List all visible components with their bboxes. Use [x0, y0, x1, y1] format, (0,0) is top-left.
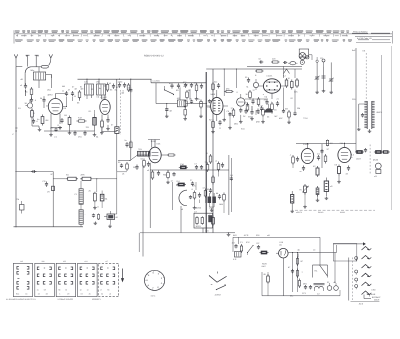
top bus right: [206, 66, 302, 69]
tube V2: [100, 95, 110, 115]
resistor R1: [25, 87, 33, 97]
svg-text:C21M.: C21M.: [267, 75, 273, 78]
svg-text:C.128M2: C.128M2: [153, 79, 160, 82]
chassis layout box B2: [35, 260, 55, 297]
svg-text:K4M3: K4M3: [340, 211, 345, 214]
parts m2: [125, 139, 133, 150]
filter cap C25: [288, 252, 294, 292]
svg-text:143: 143: [20, 260, 23, 263]
svg-text:4RR7.: 4RR7.: [48, 94, 54, 97]
wire x116 bottom: [115, 172, 117, 214]
osc resistor R2x: [198, 98, 203, 109]
capacitor C5: [58, 118, 64, 127]
resistor R3: [37, 115, 44, 126]
ground G2: [68, 131, 72, 134]
rectifier V10: [276, 248, 288, 258]
V8 below cap C20: [300, 166, 306, 174]
parts below V4: [147, 169, 160, 180]
choke coil CH2: [79, 204, 86, 224]
top bus left: [52, 75, 207, 89]
resistor R25 dark: [100, 191, 108, 205]
antenna A2: [26, 55, 30, 66]
chassis layout box B5: [98, 260, 118, 297]
svg-text:R4240: R4240: [318, 211, 323, 214]
osc section parts: [194, 82, 203, 101]
V6 bottom cluster: [248, 99, 280, 112]
label V1: [48, 94, 54, 97]
svg-text:520282C1: 520282C1: [92, 298, 101, 301]
capacitor C4: [40, 97, 46, 103]
svg-text:540K: 540K: [211, 93, 216, 96]
resistor R4: [64, 114, 71, 127]
dark component C6: [93, 114, 96, 128]
bleeder chain: [296, 252, 303, 292]
wire x283: [283, 66, 285, 110]
capacitor C16: [283, 61, 287, 64]
osc grounds: [165, 109, 203, 120]
tone switch label: [214, 294, 221, 297]
tube V5: [211, 93, 223, 115]
capacitor C15: [259, 58, 264, 64]
svg-text:M5x: M5x: [31, 69, 35, 72]
header table row-3 text: [15, 40, 352, 42]
svg-text:5.C8Mx3.343x222: 5.C8Mx3.343x222: [58, 298, 73, 301]
ground G1: [38, 128, 42, 131]
small circle part 2: [374, 163, 381, 178]
speaker field diag: [313, 237, 328, 277]
capacitor C14: [245, 76, 250, 83]
output transformer T4: [352, 98, 383, 129]
resistor R14: [291, 80, 294, 90]
V6 wires: [259, 86, 285, 99]
caps on y170: [195, 161, 209, 172]
wire gnd left: [32, 119, 39, 128]
ps bottom wire: [262, 272, 340, 296]
osc right marks: [208, 99, 212, 109]
ps top labels: [233, 234, 337, 298]
resistor R13: [285, 77, 290, 88]
osc caps mid: [190, 98, 194, 104]
label V8: [303, 143, 310, 146]
osc coil parts: [141, 158, 151, 169]
wires to bottom rule: [181, 170, 224, 233]
trimmer C18: [322, 59, 326, 89]
padder capacitor C1: [20, 84, 27, 89]
svg-text:.M: .M: [68, 89, 71, 92]
half-circle shield: [179, 190, 187, 211]
chassis layout box B4: [78, 260, 98, 297]
resistor R11: [246, 90, 252, 100]
svg-text:4KxM: 4KxM: [373, 159, 378, 162]
wire V4 up: [148, 140, 160, 148]
wire bus to V4: [155, 83, 157, 104]
wire x116 low: [116, 137, 118, 172]
svg-text:R.M: R.M: [78, 117, 82, 120]
svg-text:R58/V1-00-001-12: R58/V1-00-001-12: [144, 55, 164, 58]
V9 below parts: [335, 164, 351, 184]
label bus: [153, 79, 160, 82]
tube V1: [48, 94, 62, 115]
wire x130 down: [130, 79, 132, 160]
volume pot VR1: [299, 184, 308, 195]
chassis layout box B1: [13, 260, 32, 297]
right rule verticals: [382, 46, 392, 210]
svg-text:5x: 5x: [125, 139, 127, 142]
svg-text:17: 17: [100, 288, 102, 291]
svg-text:13: 13: [87, 288, 89, 291]
wire loop left: [16, 66, 41, 68]
svg-text:7M: 7M: [205, 161, 208, 164]
svg-text:K37C: K37C: [151, 294, 156, 297]
svg-text:3x2x3K4R: 3x2x3K4R: [367, 293, 376, 296]
ground G4: [227, 232, 236, 236]
svg-text:1M: 1M: [64, 114, 67, 117]
wire V8V9 top: [296, 143, 356, 144]
rect label: [279, 241, 284, 246]
label V5: [211, 93, 216, 96]
svg-text:02.: 02.: [89, 110, 92, 113]
trimmer C17: [315, 60, 320, 91]
ps vertical x335: [335, 245, 337, 283]
wire top loop V5: [216, 90, 218, 93]
audio cluster extra: [163, 170, 219, 214]
trimmer C19: [329, 62, 334, 90]
left col ticks: [12, 128, 18, 136]
IF transformer T3: [96, 79, 106, 99]
power transformer T5: [233, 252, 241, 262]
V8 below resistor R16: [313, 165, 319, 177]
antenna A1: [14, 54, 18, 66]
audio left marks: [51, 173, 103, 225]
switch S1a: [164, 86, 174, 95]
svg-text:28: 28: [38, 292, 40, 295]
small caps row: [73, 131, 86, 136]
shield line x206: [205, 72, 207, 233]
layout arrow: [121, 269, 124, 282]
bottom rule mid: [140, 232, 227, 234]
svg-text:R2.: R2.: [315, 270, 319, 273]
svg-text:771K: 771K: [303, 117, 308, 120]
osc wire y103: [156, 103, 207, 105]
svg-text:RM: RM: [297, 107, 300, 110]
svg-text:xx: xx: [300, 170, 302, 173]
tube V4 converter: [138, 140, 162, 163]
tube V6: [263, 79, 280, 93]
svg-text:35: 35: [65, 288, 67, 291]
parts m3: [133, 165, 139, 170]
svg-text:42M5: 42M5: [196, 207, 202, 210]
V6 under labels: [246, 86, 278, 119]
wire x224: [222, 68, 226, 121]
wire V2 bottom: [102, 115, 108, 121]
ground G3: [106, 127, 110, 130]
tube socket diagram circle: [145, 270, 165, 290]
tone switch S3: [209, 272, 227, 291]
ground G5: [108, 220, 112, 228]
svg-text:xx: xx: [351, 156, 353, 159]
parts y185 row: [173, 179, 197, 210]
svg-text:R3: R3: [107, 288, 109, 291]
svg-text:K4.R1MM07K44254C4K1817C7K1: K4.R1MM07K44254C4K1817C7K1: [6, 298, 36, 301]
diag wire dial: [118, 155, 138, 161]
capacitor C13: [176, 83, 180, 92]
svg-text:20: 20: [37, 288, 39, 291]
label power: [262, 263, 268, 268]
cluster parts det: [244, 97, 263, 112]
svg-text:x00174: x00174: [296, 211, 302, 214]
antenna coil T1: [31, 67, 52, 88]
x228 wires: [229, 155, 233, 215]
wire stub: [44, 103, 49, 122]
svg-text:R8R7: R8R7: [262, 265, 266, 268]
resistor R23: [81, 174, 93, 181]
dashed shield v: [120, 90, 122, 135]
V7 lower: [234, 115, 243, 126]
wire loop to coil: [25, 67, 31, 85]
det lower parts: [248, 110, 256, 119]
caption footnote line: [6, 298, 101, 301]
left rule: [14, 172, 84, 227]
parts x218: [215, 160, 224, 172]
speaker transformer T6: [314, 283, 325, 291]
svg-text:x8: x8: [109, 292, 111, 295]
node dot a: [25, 90, 26, 91]
capacitor C12: [169, 82, 174, 89]
svg-text:0M: 0M: [285, 108, 288, 111]
V5 bottom parts: [209, 119, 222, 134]
header table top text row: [14, 30, 349, 43]
resistor R9: [186, 89, 191, 100]
svg-text:xC4: xC4: [84, 260, 87, 263]
svg-text:14M: 14M: [219, 203, 223, 206]
T4 grounds: [357, 128, 371, 133]
cap C22: [43, 180, 49, 187]
svg-text:.3KRKR: .3KRKR: [214, 294, 221, 297]
jack wires: [309, 55, 312, 60]
svg-text:40C: 40C: [279, 117, 283, 120]
stack grounds: [290, 193, 306, 213]
resistor R5: [77, 117, 87, 123]
wire x143 down: [139, 166, 143, 257]
resistor R24: [94, 192, 97, 203]
antenna A4: [49, 54, 53, 65]
capacitor C8: [71, 91, 77, 98]
electrolytic C21: [324, 178, 333, 197]
resistor R15: [294, 78, 298, 94]
voice coil circles: [327, 283, 338, 290]
svg-text:CM: CM: [260, 105, 263, 108]
T4 left parts: [359, 104, 365, 127]
switch frame: [333, 243, 365, 262]
band switch chevrons: [362, 247, 372, 295]
switch wafer contacts: [355, 257, 358, 290]
oscillator coil L2: [25, 100, 33, 109]
resistor R17: [316, 186, 319, 197]
hatched grid block: [138, 148, 151, 156]
grounds row left: [49, 126, 103, 139]
resistor R18 dark: [291, 191, 294, 210]
tube V9: [338, 143, 351, 163]
resistor R22: [66, 174, 78, 181]
svg-text:Kx: Kx: [37, 118, 39, 121]
left block extra labels: [18, 78, 100, 130]
wire x356 tall: [355, 48, 357, 152]
resistor R8: [101, 119, 104, 129]
wire x236: [236, 68, 237, 88]
ps output wire: [262, 253, 337, 296]
capacitor C11: [129, 88, 132, 93]
ps res R21: [264, 254, 299, 296]
svg-text:2RR: 2RR: [81, 174, 86, 177]
wire R1 gnd: [26, 90, 32, 100]
resistor R7: [106, 82, 111, 92]
label top right: [352, 49, 366, 53]
audio cluster caps: [218, 193, 225, 207]
schematic title label: [144, 55, 164, 58]
left of V8 parts: [290, 154, 300, 169]
socket diagram label: [151, 294, 156, 297]
between tubes parts: [317, 140, 333, 169]
jack J1: [300, 60, 304, 64]
wire V2 net2: [102, 129, 117, 132]
osc resistor Rv: [184, 107, 187, 117]
dashed wire right: [365, 53, 367, 100]
loop antenna L1: [41, 65, 48, 68]
svg-text:M0C: M0C: [234, 123, 239, 126]
node dots bus: [86, 79, 131, 80]
resistor R6: [78, 88, 83, 100]
ps small parts left: [232, 241, 244, 253]
wire y171 left: [15, 170, 53, 173]
svg-text:8MCK: 8MCK: [377, 111, 383, 114]
dashed wire V9: [369, 145, 371, 175]
on-off switch S2: [246, 241, 254, 255]
capacitor C10: [106, 118, 109, 128]
svg-text:084: 084: [279, 243, 282, 246]
svg-text:500: 500: [42, 260, 45, 263]
parts m5: [117, 161, 129, 176]
svg-text:x17: x17: [105, 260, 108, 263]
wire x116 down: [116, 79, 118, 126]
svg-text:K3: K3: [81, 292, 83, 295]
resistor R2: [31, 109, 34, 120]
svg-text:12KC: 12KC: [118, 81, 124, 84]
svg-text:7M: 7M: [264, 99, 267, 102]
switch dashed shaft: [349, 258, 353, 301]
svg-text:4Rx: 4Rx: [226, 88, 230, 91]
det wires2: [227, 89, 309, 131]
label V2: [101, 96, 108, 99]
svg-text:18: 18: [80, 288, 82, 291]
left block text band: [62, 85, 130, 93]
switch labels: [351, 289, 382, 306]
svg-text:B-1750 Code 121: B-1750 Code 121: [357, 37, 372, 40]
svg-text:1M: 1M: [230, 174, 233, 177]
svg-text:K.R: K.R: [233, 258, 237, 261]
header title block right: [352, 31, 393, 44]
osc coil box: [177, 97, 188, 107]
resistor R19: [179, 163, 188, 168]
audio left wires: [53, 178, 117, 192]
resistor R10: [225, 88, 234, 93]
wire x150 down: [149, 163, 151, 228]
long wire y170: [150, 169, 229, 171]
svg-text:151R: 151R: [356, 158, 361, 161]
label V9: [340, 142, 355, 159]
V6 lower parts2: [267, 97, 297, 124]
osc cap dark: [165, 103, 172, 115]
cluster caps x118-128: [118, 81, 130, 95]
row2 parts: [255, 69, 290, 78]
switch bottom wire: [364, 295, 371, 299]
svg-text:88: 88: [46, 292, 48, 295]
right rule labels: [296, 211, 345, 214]
svg-text:MC: MC: [275, 115, 279, 118]
resistor R12: [271, 58, 280, 64]
svg-text:K8.: K8.: [66, 174, 69, 177]
x213 lower parts: [207, 152, 215, 226]
wire x213: [212, 69, 214, 233]
V7 parts: [231, 107, 248, 118]
right of V9 parts: [355, 148, 390, 162]
svg-text:CM: CM: [16, 198, 19, 201]
svg-text:R8: R8: [58, 288, 60, 291]
terminal strip box: [194, 213, 213, 232]
ps left wires: [233, 237, 320, 252]
svg-text:82: 82: [101, 292, 103, 295]
component M4: [16, 198, 24, 214]
electrolytic C23: [104, 211, 119, 220]
wire left column: [15, 67, 17, 228]
svg-text:xM: xM: [267, 234, 270, 237]
jack box J2: [299, 49, 309, 59]
trimmer grounds: [315, 57, 333, 94]
tube V7: [237, 94, 245, 106]
wire x180 down: [179, 87, 181, 100]
svg-text:K0K: K0K: [157, 143, 161, 146]
right rule: [295, 209, 375, 211]
wire v1 net: [51, 122, 62, 128]
capacitor C7: [62, 90, 68, 97]
wire V1 bottom: [51, 114, 60, 123]
svg-text:3RR3: 3RR3: [196, 225, 202, 228]
svg-text:PHILCO RADIO: PHILCO RADIO: [353, 31, 368, 34]
svg-text:32x: 32x: [214, 81, 217, 84]
component cluster m1: [111, 124, 119, 138]
capacitor C3: [32, 119, 39, 124]
wire x190 down: [189, 89, 191, 100]
V5 wires: [206, 106, 228, 121]
svg-text:0081R: 0081R: [374, 298, 380, 301]
V5 top parts: [212, 81, 220, 92]
svg-text:022: 022: [63, 260, 66, 263]
dark blob pair: [208, 193, 216, 203]
svg-text:7R1.: 7R1.: [138, 148, 143, 151]
tube V8: [301, 144, 313, 164]
lower cluster v6: [252, 106, 265, 123]
svg-text:1K287: 1K287: [151, 140, 158, 143]
svg-text:4M: 4M: [81, 88, 84, 91]
capacitor C2: [30, 98, 37, 103]
small circle part: [253, 79, 258, 90]
svg-text:KKx: KKx: [194, 82, 198, 85]
header table tick marks: [17, 34, 347, 36]
label V4: [151, 140, 161, 146]
choke coil CH1: [75, 189, 84, 204]
label V7: [236, 91, 239, 94]
wire bottom row1: [44, 127, 95, 132]
V4 plate wire: [161, 154, 175, 156]
